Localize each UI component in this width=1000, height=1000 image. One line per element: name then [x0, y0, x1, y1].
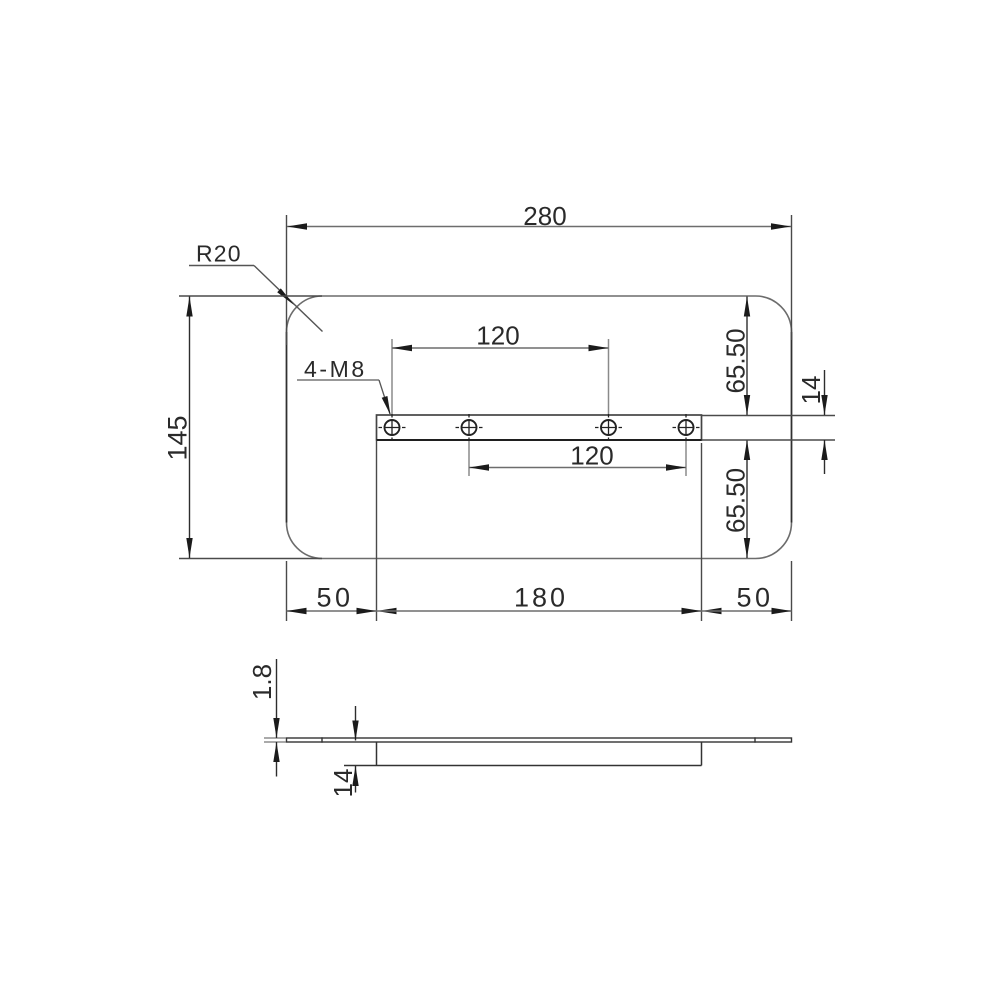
- side view plate (thin section): [287, 738, 792, 742]
- extension lines of strip for dim 14 (right): [702, 416, 836, 441]
- svg-text:280: 280: [523, 201, 566, 231]
- plate outline (top view): [287, 296, 792, 559]
- dimension 65.50 (lower right): [721, 440, 751, 558]
- svg-text:1.8: 1.8: [247, 664, 277, 700]
- side view boss (strip section): [344, 742, 702, 766]
- side view tangent edge left: [321, 737, 323, 742]
- plate outline right straight edge (darker): [791, 332, 793, 523]
- dimension 50 (bottom left): [287, 583, 397, 615]
- svg-text:14: 14: [796, 376, 826, 405]
- svg-text:50: 50: [736, 583, 773, 613]
- svg-text:120: 120: [476, 321, 519, 351]
- side view tangent edge right: [754, 737, 756, 742]
- plate outline left straight edge (darker): [286, 332, 288, 523]
- svg-text:4-M8: 4-M8: [304, 356, 367, 382]
- dimension 50 (bottom right): [682, 583, 792, 615]
- svg-text:14: 14: [328, 769, 358, 798]
- dimension 14 (side view boss height): [328, 706, 359, 797]
- bottom dimension group extension lines: [287, 441, 792, 621]
- svg-text:50: 50: [316, 583, 353, 613]
- dimension 280 (top): [287, 201, 792, 345]
- svg-text:120: 120: [570, 441, 613, 471]
- svg-text:65.50: 65.50: [721, 468, 751, 533]
- label R20 with leader: [189, 241, 323, 332]
- dimension 145 (left): [163, 296, 323, 559]
- hole 1: [379, 414, 406, 441]
- dimension 1.8 (side view thickness): [247, 659, 286, 777]
- dimension 120 (lower, hole2 to hole4): [469, 441, 686, 477]
- mounting strip bottom edge (darker): [377, 439, 702, 441]
- mounting strip (top view): [377, 415, 702, 440]
- hole 4: [673, 414, 700, 441]
- svg-text:180: 180: [514, 583, 568, 613]
- svg-text:R20: R20: [196, 241, 242, 267]
- hole 2: [456, 414, 483, 441]
- dimension 180 (bottom middle): [357, 583, 722, 615]
- dimension 65.50 (upper right): [721, 297, 751, 416]
- svg-text:145: 145: [163, 415, 193, 460]
- label 4-M8 with leader: [297, 356, 391, 415]
- hole 3: [595, 414, 622, 441]
- dimension 14 (right side, strip width): [796, 370, 828, 474]
- dimension 120 (upper, hole1 to hole3): [392, 321, 609, 415]
- svg-text:65.50: 65.50: [721, 328, 751, 393]
